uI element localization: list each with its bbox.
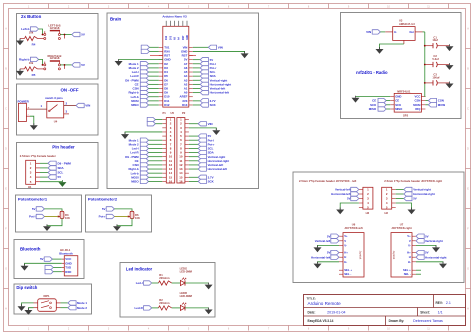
svg-text:2.5mm 1*5p Female header JOYST: 2.5mm 1*5p Female header JOYSTICK-right [384,179,442,183]
svg-text:Debreczeni Tamas: Debreczeni Tamas [413,319,443,323]
svg-text:RST: RST [183,35,185,40]
svg-text:5V: 5V [102,207,106,211]
wire VIN to regulator [380,31,385,33]
svg-text:100uf: 100uf [432,75,439,79]
svg-text:LED-3MM: LED-3MM [180,294,193,298]
svg-text:P1: P1 [163,111,167,115]
svg-text:Pot-r: Pot-r [99,215,107,219]
net flag SDA [193,75,200,77]
wire capacitor to ground [437,82,449,84]
wire DIP1 to Mode 1 [61,302,68,304]
svg-text:R4: R4 [32,43,36,47]
svg-text:U3: U3 [399,18,403,22]
wire H2 pin4 to ground [340,203,359,210]
ground [21,304,23,306]
svg-text:Mode 2: Mode 2 [77,306,87,310]
svg-text:ON -OFF: ON -OFF [60,88,78,93]
svg-text:Sheet:: Sheet: [420,311,430,315]
svg-text:H-: H- [344,260,347,264]
wire potentiometer to ground [47,219,62,227]
svg-text:SP2: SP2 [403,113,409,117]
svg-text:Dip switch: Dip switch [16,285,37,290]
net flag Vertical-right [193,79,200,81]
svg-text:1/1: 1/1 [438,311,443,315]
wire LED to ground [185,282,209,284]
svg-text:12/12x8: 12/12x8 [50,26,60,30]
svg-text:GND: GND [187,35,189,40]
svg-text:DIP1: DIP1 [44,294,50,298]
wire header GND left to ground [125,132,162,134]
net label Vertical-left [331,239,339,243]
svg-text:Bluetooth: Bluetooth [20,246,41,251]
wire wiper [114,216,130,218]
svg-text:H: H [467,308,469,311]
ground [449,44,451,46]
svg-text:10K: 10K [65,216,70,220]
svg-text:16: 16 [169,179,173,183]
wire U4 to VIN [64,105,76,107]
ground [317,245,319,247]
net flag Mode 1 [68,301,76,305]
svg-text:H-: H- [408,260,411,264]
section box Led indicator [120,263,215,318]
svg-text:D: D [5,148,7,151]
net flag Pot-l [193,63,200,65]
wire LED to ground [185,307,209,309]
ground [116,224,118,226]
header P1 [166,118,174,183]
svg-text:R5: R5 [32,73,36,77]
svg-text:16: 16 [179,179,183,183]
svg-text:2019-01-04: 2019-01-04 [327,311,345,315]
wire H1 pin 1 [40,162,48,164]
svg-text:Joystick: Joystick [359,251,362,260]
net flag header top 2 [147,122,155,126]
ground [19,69,21,71]
resistor R5 10k [20,68,25,70]
title block [304,295,466,326]
svg-text:U4: U4 [54,120,58,124]
svg-text:5V: 5V [413,197,417,201]
net flag Vertical-right [396,189,404,191]
svg-text:12/12x8: 12/12x8 [50,56,60,60]
resistor R4 10k [20,38,25,40]
svg-text:V-: V- [408,243,411,247]
svg-text:U6: U6 [352,222,356,226]
svg-text:Horizontal-right: Horizontal-right [413,192,435,196]
net flag Pot-r [189,143,198,145]
wire V- to ground [318,245,340,247]
wire regulator GND to ground [380,44,404,49]
wire H1 pin 2 [40,167,48,169]
svg-text:U5: U5 [171,111,175,115]
potentiometer R3 10K [60,211,64,218]
net label Horizontal-right [416,255,424,259]
svg-text:H1: H1 [28,185,32,189]
ground [379,47,381,49]
svg-text:H3: H3 [384,211,388,215]
wire H1 pin 5 to ground [40,181,62,183]
svg-text:2.5mm 1*5p Female header JOYST: 2.5mm 1*5p Female header JOYSTICK - left [299,179,356,183]
net flag Horizontal-left [189,168,198,170]
wire TX1 [149,46,158,48]
svg-text:D9 - PWM: D9 - PWM [58,161,72,165]
net flag D9 - PWM [48,161,56,165]
ground [19,39,21,41]
svg-text:H: H [5,308,7,311]
wire GND to ground [119,59,163,61]
net flag Horizontal-right [193,83,200,85]
svg-text:C: C [5,108,7,111]
wire VCC rail [424,95,427,97]
wire wiper [44,216,60,218]
power flag VIN [193,46,209,48]
wire 5V to VCC [52,258,61,260]
svg-text:JOYSTICK-left: JOYSTICK-left [344,226,362,230]
svg-text:SCK: SCK [208,180,215,184]
svg-text:MISO: MISO [131,103,139,107]
wire GND to ground [193,51,245,53]
svg-text:Vertical-right: Vertical-right [425,239,443,243]
svg-text:SDA: SDA [58,166,65,170]
net flag Pot-l [189,139,198,141]
svg-text:Brain: Brain [110,17,122,22]
svg-text:Arduino Remote: Arduino Remote [308,301,342,306]
svg-text:10k: 10k [29,31,34,35]
svg-text:5V: 5V [425,234,429,238]
section box joysticks [293,172,464,283]
wire DIP1 pin2 to ground [28,308,33,310]
net flag CSN [425,100,428,102]
svg-text:G: G [467,268,469,271]
wire Led-l to resistor [152,282,159,284]
svg-text:D: D [467,148,469,151]
net flag RXD [45,270,53,274]
net flag TX1 [141,45,149,49]
net flag 3.7V [193,100,200,102]
power flag VIN [189,123,198,125]
svg-text:V+: V+ [344,234,348,238]
svg-text:REV:: REV: [436,301,443,305]
svg-text:Led-R: Led-R [134,306,143,310]
svg-text:D12: D12 [164,103,170,107]
wire header GND right to ground [189,128,216,130]
capacitor C2 5.3uf [424,64,426,66]
net flag Mode 2 [68,306,76,310]
net flag Horizontal-right [396,193,404,195]
svg-text:SCK: SCK [210,103,217,107]
ground [208,283,210,285]
svg-text:AMS1117-3.3: AMS1117-3.3 [399,22,415,26]
net flag 3.7V [189,176,198,178]
wire 5V to potentiometer [114,209,132,211]
svg-text:Vertical-left: Vertical-left [315,239,331,243]
wire capacitor to ground [437,45,449,47]
svg-text:2x Button: 2x Button [21,14,42,19]
svg-text:MISO: MISO [369,107,377,111]
wire POWER to ground [30,116,34,125]
wire H1 pin 4 [40,176,48,178]
potentiometer R6 10K [130,211,134,218]
net flag MOSI [425,104,428,106]
svg-text:Led-l: Led-l [136,281,143,285]
net flag SCK [189,180,198,182]
capacitor C3 100uf [424,82,426,84]
power flag 5V [416,250,424,254]
ground [411,208,413,210]
pin 3 stub [64,113,69,115]
wire Led-R to resistor [152,307,159,309]
wire resistor to LED [172,282,181,284]
svg-text:Potentiometer2: Potentiometer2 [88,196,118,201]
svg-text:Horizontal-left: Horizontal-left [210,91,229,95]
net flag RX0 [141,49,149,53]
svg-text:Date:: Date: [308,311,316,315]
net label Horizontal-left [331,255,339,259]
header H1 [26,160,36,184]
svg-text:5V: 5V [347,197,351,201]
svg-text:5.3uf: 5.3uf [432,57,438,61]
header H2 [363,187,373,209]
wire RST stub [150,55,163,57]
net flag SCL [193,71,200,73]
section box Brain [107,13,259,189]
svg-text:swich 3 pins: swich 3 pins [45,96,63,100]
svg-text:Horizontal-left: Horizontal-left [311,255,330,259]
ground [449,63,451,65]
svg-text:3V3: 3V3 [170,35,172,40]
svg-text:-: - [28,113,29,117]
ground [46,224,48,226]
net flag SCL [189,147,198,149]
svg-text:VIN: VIN [208,122,213,126]
power flag 5V [331,234,339,238]
power flag 5V [416,234,424,238]
svg-text:SEL -: SEL - [404,272,411,276]
net flag SCL [48,170,56,174]
wire DIP1 pin1 to ground [22,303,34,306]
svg-text:H2: H2 [366,211,370,215]
wire GND to ground [25,263,62,266]
svg-text:5V: 5V [81,63,85,67]
ground [317,262,319,264]
wire TXD [53,267,62,269]
svg-text:10uf: 10uf [432,38,438,42]
svg-text:V: V [409,239,411,243]
wire H3 pin4 to ground [396,203,412,210]
svg-text:SEL -: SEL - [344,272,351,276]
wire RXD [53,271,62,273]
wire H1 pin 3 [40,172,48,174]
svg-text:MISO: MISO [131,180,139,184]
svg-text:Right-b: Right-b [19,58,30,62]
net flag 5V [396,198,404,200]
svg-text:V-: V- [344,243,347,247]
svg-text:Bluetooth: Bluetooth [59,251,73,255]
ground [124,132,126,134]
svg-text:2.1: 2.1 [446,301,451,305]
header P2 [177,118,185,183]
section box ON -OFF [17,84,99,135]
net label Vertical-right [416,239,424,243]
svg-text:5V: 5V [58,175,62,179]
ground [339,208,341,210]
wire POWER to switch U4 [30,108,47,110]
net flag 5V [189,135,198,137]
net flag Vertical-right [189,156,198,158]
net flag SDA [48,166,56,170]
wire GND to ground [356,95,391,97]
svg-text:5V: 5V [327,234,331,238]
ground [449,82,451,84]
wire Right-b to switch [39,59,43,65]
svg-text:Out: Out [409,30,414,34]
ground [61,180,63,182]
svg-text:Horizontal-left: Horizontal-left [331,192,350,196]
svg-text:MISO: MISO [395,107,403,111]
wire capacitor to ground [437,64,449,66]
svg-text:D12: D12 [166,35,168,40]
svg-text:Pot-l: Pot-l [29,215,36,219]
svg-text:5V: 5V [32,207,36,211]
ground [435,245,437,247]
ground [208,308,210,310]
svg-text:V: V [344,239,346,243]
svg-text:EasyEDA V5.3.14: EasyEDA V5.3.14 [308,319,334,323]
svg-text:G: G [5,268,7,271]
net flag 5V [193,59,200,61]
svg-text:5V: 5V [327,251,331,255]
svg-text:5V: 5V [425,251,429,255]
svg-text:Horizontal-left: Horizontal-left [208,167,227,171]
svg-text:10K: 10K [135,216,140,220]
net flag TXD [45,265,53,269]
power flag 5V [72,32,80,36]
capacitor C1 10uf [424,45,426,47]
svg-text:Potentiometer1: Potentiometer1 [18,196,48,201]
svg-text:H+: H+ [344,251,348,255]
svg-text:C: C [467,108,469,111]
svg-text:220ohm: 220ohm [159,301,170,305]
header H3 [382,187,392,209]
section box Potentiometer1 [16,195,82,232]
section box 2x Button [17,14,99,80]
section box Bluetooth [14,240,84,279]
ground [27,308,29,310]
svg-text:LED-3MM: LED-3MM [180,269,193,273]
svg-text:Pin header: Pin header [52,145,75,150]
net flag SCK [193,104,200,106]
wire V- to ground [416,245,436,247]
power flag 5V [72,63,80,67]
svg-text:+: + [28,106,30,110]
section box Dip switch [14,284,92,314]
svg-text:P2: P2 [182,111,186,115]
svg-text:U7: U7 [400,222,404,226]
svg-text:RXD: RXD [65,270,71,274]
net flag Vertical-left [189,164,198,166]
svg-text:Horizontal-right: Horizontal-right [425,255,447,259]
net flag Pot-r [193,67,200,69]
svg-text:SCL: SCL [58,171,64,175]
section box Pin header [17,143,99,189]
svg-text:JOYSTICK-right: JOYSTICK-right [391,226,411,230]
svg-text:NRF24L01: NRF24L01 [397,89,411,93]
wire regulator out rail [423,31,425,33]
svg-text:VIN: VIN [85,104,90,108]
svg-text:H: H [344,255,346,259]
svg-text:IRQ: IRQ [415,107,421,111]
svg-text:H+: H+ [407,251,411,255]
power flag VIN [76,103,84,107]
wire H- to ground [318,262,340,264]
svg-text:5V: 5V [81,33,85,37]
net flag SDA [189,152,198,154]
svg-text:Drawn By:: Drawn By: [389,319,405,323]
wire 5V to potentiometer [44,209,62,211]
svg-text:H: H [409,255,411,259]
ground [244,51,246,53]
svg-text:V+: V+ [407,234,411,238]
wire switch to 5V [60,34,71,36]
svg-text:TITLE:: TITLE: [307,296,316,300]
svg-text:VIN: VIN [218,46,223,50]
section box nrf24l01 - Radio [341,13,462,119]
svg-text:Arduino Nano V3: Arduino Nano V3 [162,14,187,18]
wire Left-b to switch [39,29,43,35]
ground [24,264,26,266]
wire RST stub right [189,55,196,57]
svg-text:nrf24l01 - Radio: nrf24l01 - Radio [356,70,388,75]
svg-text:VIN: VIN [366,30,371,34]
wire potentiometer to ground [117,219,132,227]
wire H- to ground [416,262,443,264]
ground [33,123,35,125]
svg-text:Joystick: Joystick [392,251,395,260]
net flag Horizontal-right [189,160,198,162]
ground [118,59,120,61]
wire resistor to LED [172,307,181,309]
svg-text:Left-b: Left-b [21,27,29,31]
ground [215,128,217,130]
ground [442,262,444,264]
svg-text:220ohm: 220ohm [159,276,170,280]
svg-text:Vertical-left: Vertical-left [335,188,351,192]
wire switch to 5V [60,64,71,66]
svg-text:Mode 1: Mode 1 [77,301,87,305]
power flag 5V [331,250,339,254]
wire RX0 [149,50,158,52]
svg-text:2.54mm 1*5p Female header: 2.54mm 1*5p Female header [20,154,56,158]
net flag Vertical-left [193,88,200,90]
svg-text:5V: 5V [40,257,44,261]
svg-text:D13: D13 [182,103,188,107]
svg-text:10k: 10k [29,61,34,65]
svg-text:Led indicator: Led indicator [126,266,153,271]
section box Potentiometer2 [86,195,152,232]
ground [355,96,357,98]
svg-text:MOSI: MOSI [438,103,446,107]
net flag Horizontal-left [193,92,200,94]
net flag 5V [48,175,56,179]
net flag header top 1 [147,117,155,121]
svg-text:Vertical-right: Vertical-right [413,188,431,192]
wire DIP1 to Mode 2 [61,307,68,309]
